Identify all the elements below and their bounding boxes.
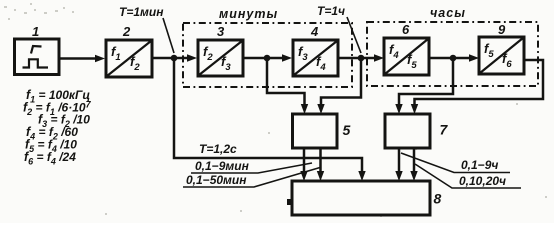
block 4 divider f3/f4 bbox=[293, 40, 338, 76]
svg-text:Т=1ч: Т=1ч bbox=[317, 4, 345, 18]
wire: block7 outputs to block8 bbox=[399, 148, 414, 175]
svg-text:6: 6 bbox=[402, 22, 410, 37]
svg-text:1: 1 bbox=[32, 24, 39, 39]
block 5 minutes counter bbox=[293, 114, 338, 148]
wire: block9 output loop to block7 right input bbox=[415, 60, 544, 107]
block 9 divider f5/f6 bbox=[479, 37, 524, 74]
block 2 divider f1/f2 bbox=[106, 40, 152, 77]
svg-text:0,1−9ч: 0,1−9ч bbox=[461, 158, 498, 172]
svg-text:Т=1,2с: Т=1,2с bbox=[199, 142, 237, 156]
node after block2 bbox=[171, 55, 178, 62]
node after block3 bbox=[264, 55, 271, 62]
wire: block3 to block4 with node bbox=[243, 57, 285, 60]
svg-text:0,1−9мин: 0,1−9мин bbox=[195, 159, 250, 173]
dash-dot enclosure "часы" bbox=[367, 22, 538, 86]
svg-text:8: 8 bbox=[434, 191, 442, 207]
block 6 divider f4/f5 bbox=[384, 38, 429, 75]
svg-text:5: 5 bbox=[343, 122, 351, 138]
svg-text:0,1−50мин: 0,1−50мин bbox=[186, 173, 247, 187]
svg-text:4: 4 bbox=[310, 24, 319, 39]
wire: node6 down to block7 left input bbox=[399, 58, 453, 107]
block 1 pulse generator bbox=[15, 39, 60, 75]
node after block4 bbox=[358, 55, 365, 62]
block 3 divider f2/f3 bbox=[198, 40, 243, 76]
dash-dot enclosure "минуты" bbox=[183, 23, 352, 87]
svg-text:3: 3 bbox=[217, 24, 225, 39]
svg-text:минуты: минуты bbox=[219, 7, 278, 21]
node after block6 bbox=[450, 55, 457, 62]
block 8 left edge tick bbox=[287, 199, 292, 205]
wire: block2 to block3 with node bbox=[152, 57, 190, 60]
block 8 display bbox=[292, 181, 430, 215]
wire: node2 down, T=1,2c line into block8 bbox=[174, 58, 362, 174]
block 7 hours counter bbox=[385, 114, 430, 148]
wire: block5 outputs to block8 bbox=[304, 148, 321, 175]
svg-text:2: 2 bbox=[122, 24, 131, 39]
svg-text:9: 9 bbox=[498, 22, 506, 37]
wire: block6 to block9 with node bbox=[429, 57, 472, 60]
svg-text:Т=1мин: Т=1мин bbox=[119, 5, 164, 19]
wire: node4 down to block5 right input bbox=[321, 58, 361, 107]
wire: block4 to block6 with node bbox=[338, 57, 377, 60]
svg-text:0,10,20ч: 0,10,20ч bbox=[459, 174, 506, 188]
wire: block1 to block2 bbox=[59, 57, 98, 60]
wire: node3 down to block5 left input bbox=[267, 58, 305, 107]
svg-text:7: 7 bbox=[440, 122, 449, 138]
svg-text:часы: часы bbox=[430, 6, 466, 20]
